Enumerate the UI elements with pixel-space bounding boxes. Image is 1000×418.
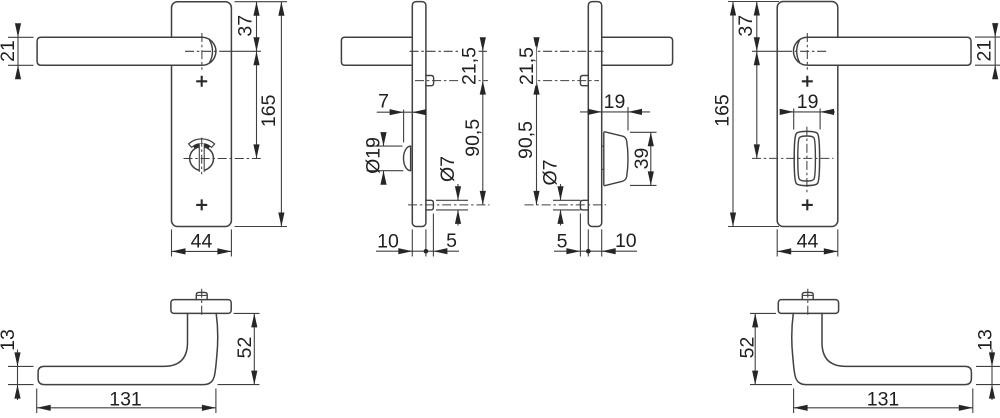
svg-text:90,5: 90,5 [462, 119, 484, 157]
svg-text:52: 52 [737, 337, 759, 359]
svg-text:7: 7 [378, 90, 389, 112]
svg-text:21,5: 21,5 [516, 47, 538, 85]
svg-text:37: 37 [235, 15, 257, 37]
svg-text:13: 13 [0, 329, 19, 351]
svg-text:Ø7: Ø7 [437, 156, 459, 182]
svg-text:165: 165 [258, 94, 280, 127]
svg-text:21: 21 [974, 40, 996, 62]
svg-text:39: 39 [631, 148, 653, 170]
svg-text:Ø7: Ø7 [540, 159, 562, 185]
svg-text:37: 37 [735, 15, 757, 37]
svg-text:19: 19 [797, 91, 819, 113]
svg-text:13: 13 [975, 329, 997, 351]
svg-text:10: 10 [615, 230, 637, 252]
svg-text:44: 44 [191, 230, 213, 252]
svg-text:131: 131 [867, 388, 900, 410]
svg-text:19: 19 [604, 91, 626, 113]
svg-text:Ø19: Ø19 [363, 137, 385, 174]
svg-text:21,5: 21,5 [458, 47, 480, 85]
svg-text:52: 52 [234, 337, 256, 359]
svg-text:131: 131 [109, 388, 142, 410]
svg-text:165: 165 [712, 94, 734, 127]
svg-text:90,5: 90,5 [515, 121, 537, 159]
svg-text:5: 5 [446, 230, 457, 252]
svg-text:5: 5 [557, 230, 568, 252]
svg-text:44: 44 [797, 230, 819, 252]
svg-text:21: 21 [0, 40, 19, 62]
svg-text:10: 10 [377, 230, 399, 252]
